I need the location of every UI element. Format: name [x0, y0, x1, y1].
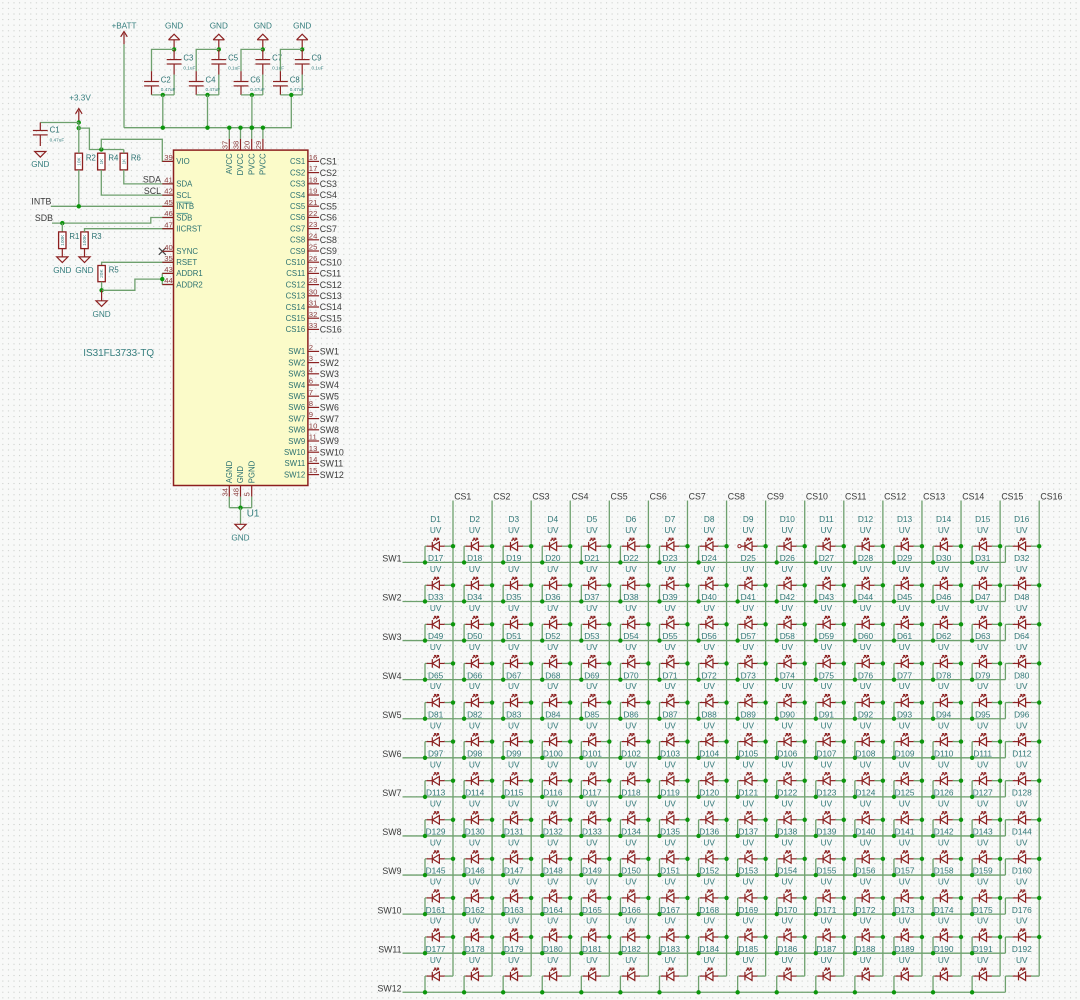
LED D10 UV	[775, 514, 807, 565]
svg-text:UV: UV	[1016, 916, 1028, 926]
svg-text:7: 7	[309, 388, 313, 397]
LED D143 UV	[970, 827, 1002, 878]
svg-text:CS10: CS10	[286, 258, 306, 267]
svg-text:VIO: VIO	[176, 157, 189, 166]
svg-text:UV: UV	[508, 720, 520, 730]
svg-text:42: 42	[164, 187, 173, 196]
svg-text:CS12: CS12	[320, 280, 342, 290]
LED D48 UV	[1005, 592, 1041, 640]
pin 40 SYNC	[162, 243, 198, 256]
pin 48 GND	[232, 466, 246, 508]
svg-text:UV: UV	[899, 720, 911, 730]
svg-text:37: 37	[220, 141, 229, 150]
pin CS6	[290, 209, 337, 223]
LED D24 UV	[696, 553, 728, 604]
LED D129 UV	[423, 827, 455, 878]
svg-text:D134: D134	[621, 827, 641, 837]
svg-text:D46: D46	[936, 592, 952, 602]
LED D84 UV	[540, 709, 572, 760]
svg-text:28: 28	[309, 276, 318, 285]
junction pair 2 tie	[205, 93, 209, 97]
svg-text:UV: UV	[860, 798, 872, 808]
svg-text:UV: UV	[782, 642, 794, 652]
junction ADDR tie	[160, 277, 164, 281]
svg-text:D183: D183	[660, 944, 680, 954]
LED D15 UV	[970, 514, 1002, 565]
svg-text:UV: UV	[625, 681, 637, 691]
svg-text:D127: D127	[973, 788, 993, 798]
svg-text:D137: D137	[738, 827, 758, 837]
svg-text:CS13: CS13	[923, 492, 945, 502]
pin SW1	[288, 343, 339, 357]
svg-text:UV: UV	[430, 877, 442, 887]
svg-text:CS9: CS9	[767, 492, 784, 502]
LED D141 UV	[892, 827, 924, 878]
svg-text:CS2: CS2	[493, 492, 510, 502]
svg-text:100K: 100K	[82, 234, 88, 246]
LED D50 UV	[462, 631, 494, 682]
svg-text:CS14: CS14	[962, 492, 984, 502]
svg-text:UV: UV	[860, 564, 872, 574]
svg-text:D68: D68	[545, 670, 561, 680]
svg-text:UV: UV	[782, 877, 794, 887]
wire R2 top	[78, 128, 80, 153]
svg-text:D67: D67	[506, 670, 522, 680]
svg-text:25: 25	[309, 243, 318, 252]
svg-text:IS31FL3733-TQ: IS31FL3733-TQ	[83, 348, 154, 359]
LED D136 UV	[696, 827, 728, 878]
svg-text:UV: UV	[469, 525, 481, 535]
LED D38 UV	[618, 592, 650, 643]
LED D111 UV	[970, 748, 1002, 799]
svg-text:UV: UV	[547, 838, 559, 848]
svg-text:SW2: SW2	[382, 593, 401, 603]
svg-text:48: 48	[232, 488, 241, 497]
svg-text:D88: D88	[702, 709, 718, 719]
svg-text:D59: D59	[819, 631, 835, 641]
junction DVCC on bus	[238, 126, 242, 130]
junction pair 1 tie	[161, 93, 165, 97]
svg-text:R5: R5	[109, 266, 120, 275]
svg-text:D178: D178	[465, 944, 485, 954]
svg-text:D150: D150	[621, 866, 641, 876]
LED D114 UV	[462, 788, 494, 839]
svg-text:UV: UV	[625, 955, 637, 965]
LED D41 UV	[735, 592, 767, 643]
svg-text:D11: D11	[819, 514, 834, 524]
svg-text:GND: GND	[254, 21, 272, 30]
LED D67 UV	[501, 670, 533, 721]
pin CS3	[290, 175, 337, 189]
svg-text:UV: UV	[821, 955, 833, 965]
LED D43 UV	[814, 592, 846, 643]
LED D101 UV	[579, 748, 611, 799]
wire CS16 column	[1038, 501, 1040, 977]
LED D105 UV	[735, 748, 767, 799]
wire SW5 row	[403, 718, 1006, 720]
svg-text:UV: UV	[430, 759, 442, 769]
svg-text:D139: D139	[816, 827, 836, 837]
svg-text:D41: D41	[741, 592, 757, 602]
svg-text:UV: UV	[860, 759, 872, 769]
svg-text:4: 4	[309, 365, 314, 374]
svg-text:SW10: SW10	[284, 448, 306, 457]
svg-text:UV: UV	[938, 916, 950, 926]
svg-text:D164: D164	[543, 905, 563, 915]
svg-text:D63: D63	[975, 631, 991, 641]
LED D179 UV	[501, 944, 531, 995]
svg-text:0.47uF: 0.47uF	[161, 87, 176, 92]
svg-text:D51: D51	[506, 631, 522, 641]
svg-text:D124: D124	[856, 788, 876, 798]
svg-text:UV: UV	[1016, 681, 1028, 691]
LED D78 UV	[931, 670, 963, 721]
svg-text:D36: D36	[545, 592, 561, 602]
wire CS14 column	[960, 501, 962, 977]
svg-text:AGND: AGND	[225, 460, 234, 483]
LED D169 UV	[735, 905, 767, 956]
junction pair 4 tie	[289, 93, 293, 97]
LED D165 UV	[579, 905, 611, 956]
svg-text:UV: UV	[742, 759, 754, 769]
LED D126 UV	[931, 788, 963, 839]
LED D159 UV	[970, 866, 1002, 917]
LED D81 UV	[423, 709, 455, 760]
pin SW10	[284, 444, 344, 458]
svg-text:SW3: SW3	[288, 370, 305, 379]
svg-text:UV: UV	[703, 720, 715, 730]
svg-text:D54: D54	[623, 631, 639, 641]
svg-text:UV: UV	[664, 564, 676, 574]
svg-text:20: 20	[243, 141, 252, 150]
svg-text:SW8: SW8	[382, 827, 401, 837]
svg-text:SW9: SW9	[382, 866, 401, 876]
svg-text:UV: UV	[547, 916, 559, 926]
svg-text:D191: D191	[973, 944, 993, 954]
svg-text:UV: UV	[625, 759, 637, 769]
svg-text:9: 9	[309, 410, 313, 419]
svg-text:PVCC: PVCC	[259, 153, 268, 175]
svg-text:UV: UV	[703, 642, 715, 652]
LED D62 UV	[931, 631, 963, 682]
svg-text:UV: UV	[547, 681, 559, 691]
LED D108 UV	[853, 748, 885, 799]
wire R6 top	[123, 150, 125, 154]
pin 38 DVCC	[232, 128, 246, 176]
svg-text:UV: UV	[703, 798, 715, 808]
svg-text:UV: UV	[782, 916, 794, 926]
svg-text:D28: D28	[858, 553, 874, 563]
LED D168 UV	[696, 905, 728, 956]
svg-text:UV: UV	[508, 564, 520, 574]
junction pair 1 on bus	[161, 126, 165, 130]
svg-text:D89: D89	[741, 709, 757, 719]
svg-text:UV: UV	[938, 681, 950, 691]
svg-text:UV: UV	[899, 564, 911, 574]
LED D23 UV	[657, 553, 689, 604]
svg-text:0.47uF: 0.47uF	[290, 87, 305, 92]
svg-text:UV: UV	[547, 955, 559, 965]
svg-text:UV: UV	[703, 877, 715, 887]
svg-text:D8: D8	[704, 514, 715, 524]
LED D46 UV	[931, 592, 963, 643]
LED D18 UV	[462, 553, 494, 604]
capacitor C6 0.47uF	[234, 71, 265, 95]
wire SW9 row	[403, 874, 1006, 876]
svg-text:CS4: CS4	[320, 190, 337, 200]
LED D146 UV	[462, 866, 494, 917]
LED D51 UV	[501, 631, 533, 682]
pin SW3	[288, 365, 339, 379]
LED D86 UV	[618, 709, 650, 760]
LED D76 UV	[853, 670, 885, 721]
svg-text:D20: D20	[545, 553, 561, 563]
svg-text:UV: UV	[938, 798, 950, 808]
svg-text:D87: D87	[662, 709, 678, 719]
svg-text:D181: D181	[582, 944, 602, 954]
svg-text:UV: UV	[742, 564, 754, 574]
LED D153 UV	[735, 866, 767, 917]
resistor R3 100K	[81, 232, 102, 257]
svg-text:D188: D188	[856, 944, 876, 954]
LED D122 UV	[775, 788, 807, 839]
junction +3.3V node B	[77, 126, 81, 130]
svg-text:UV: UV	[899, 916, 911, 926]
svg-text:44: 44	[164, 276, 173, 285]
LED D27 UV	[814, 553, 846, 604]
svg-text:UV: UV	[821, 916, 833, 926]
svg-text:27: 27	[309, 265, 318, 274]
pin SW2	[288, 354, 339, 368]
svg-text:D186: D186	[777, 944, 797, 954]
svg-text:CS15: CS15	[286, 314, 306, 323]
svg-text:D81: D81	[428, 709, 444, 719]
svg-text:D30: D30	[936, 553, 952, 563]
svg-text:D158: D158	[934, 866, 954, 876]
wire SW10 row	[403, 913, 1006, 915]
svg-text:D2: D2	[469, 514, 480, 524]
svg-text:UV: UV	[625, 798, 637, 808]
svg-text:C2: C2	[161, 76, 171, 85]
junction at C7 top	[261, 47, 265, 51]
svg-text:D170: D170	[777, 905, 797, 915]
svg-text:D190: D190	[934, 944, 954, 954]
svg-text:UV: UV	[625, 916, 637, 926]
svg-text:SW8: SW8	[320, 425, 339, 435]
svg-text:38: 38	[232, 141, 241, 150]
svg-text:UV: UV	[430, 642, 442, 652]
LED D121 UV	[735, 788, 767, 839]
svg-text:C1: C1	[50, 126, 60, 135]
LED D97 UV	[423, 748, 455, 799]
svg-text:UV: UV	[1016, 603, 1028, 613]
svg-text:UV: UV	[1016, 564, 1028, 574]
svg-text:UV: UV	[899, 798, 911, 808]
svg-text:CS6: CS6	[320, 213, 337, 223]
svg-text:CS9: CS9	[320, 246, 337, 256]
svg-text:D105: D105	[738, 748, 758, 758]
pin CS15	[286, 310, 342, 324]
svg-text:D166: D166	[621, 905, 641, 915]
svg-text:UV: UV	[508, 642, 520, 652]
svg-text:D155: D155	[816, 866, 836, 876]
svg-text:UV: UV	[782, 955, 794, 965]
svg-text:UV: UV	[860, 720, 872, 730]
svg-text:D35: D35	[506, 592, 522, 602]
LED D69 UV	[579, 670, 611, 721]
svg-text:UV: UV	[703, 955, 715, 965]
wire CS1 column	[452, 501, 454, 977]
svg-text:D69: D69	[584, 670, 600, 680]
svg-text:D57: D57	[741, 631, 757, 641]
junction pair 3 on bus	[250, 126, 254, 130]
svg-text:D77: D77	[897, 670, 913, 680]
LED D60 UV	[853, 631, 885, 682]
LED D17 UV	[423, 553, 455, 604]
svg-text:PGND: PGND	[247, 460, 256, 483]
LED D176 UV	[1005, 905, 1041, 953]
svg-text:D129: D129	[426, 827, 446, 837]
svg-text:D56: D56	[702, 631, 718, 641]
svg-text:SW3: SW3	[382, 632, 401, 642]
svg-text:UV: UV	[586, 681, 598, 691]
svg-text:UV: UV	[469, 955, 481, 965]
svg-text:D160: D160	[1012, 866, 1032, 876]
LED D54 UV	[618, 631, 650, 682]
capacitor C8 0.47uF	[273, 71, 304, 95]
LED D93 UV	[892, 709, 924, 760]
LED D45 UV	[892, 592, 924, 643]
LED D139 UV	[814, 827, 846, 878]
svg-text:D119: D119	[660, 788, 680, 798]
svg-text:UV: UV	[977, 798, 989, 808]
LED D66 UV	[462, 670, 494, 721]
LED D157 UV	[892, 866, 924, 917]
LED D9 UV	[738, 514, 768, 551]
svg-text:D118: D118	[621, 788, 641, 798]
svg-text:39: 39	[164, 153, 173, 162]
LED D135 UV	[657, 827, 689, 878]
LED D34 UV	[462, 592, 494, 643]
LED D74 UV	[775, 670, 807, 721]
svg-text:UV: UV	[899, 877, 911, 887]
svg-text:D26: D26	[780, 553, 796, 563]
LED D156 UV	[853, 866, 885, 917]
svg-text:UV: UV	[430, 681, 442, 691]
svg-text:UV: UV	[703, 525, 715, 535]
svg-text:10K: 10K	[76, 156, 82, 165]
wire R6 bottom to SDA	[124, 170, 174, 184]
svg-text:R4: R4	[108, 153, 119, 162]
svg-text:CS4: CS4	[290, 191, 306, 200]
svg-text:C6: C6	[250, 76, 260, 85]
svg-text:INTB: INTB	[176, 202, 194, 211]
LED D42 UV	[775, 592, 807, 643]
LED D22 UV	[618, 553, 650, 604]
svg-text:UV: UV	[586, 877, 598, 887]
svg-text:SW2: SW2	[288, 358, 305, 367]
svg-text:UV: UV	[782, 838, 794, 848]
LED D132 UV	[540, 827, 572, 878]
svg-text:UV: UV	[860, 955, 872, 965]
svg-text:D12: D12	[858, 514, 874, 524]
wire CS2 column	[491, 501, 493, 977]
svg-text:CS10: CS10	[320, 257, 342, 267]
svg-text:D117: D117	[582, 788, 602, 798]
svg-text:UV: UV	[469, 916, 481, 926]
svg-text:D156: D156	[856, 866, 876, 876]
LED D150 UV	[618, 866, 650, 917]
pin SW4	[288, 377, 339, 391]
svg-text:D136: D136	[699, 827, 719, 837]
svg-text:UV: UV	[430, 603, 442, 613]
svg-text:UV: UV	[703, 838, 715, 848]
svg-text:CS6: CS6	[650, 492, 667, 502]
svg-text:UV: UV	[703, 564, 715, 574]
svg-text:D99: D99	[506, 748, 522, 758]
svg-text:D180: D180	[543, 944, 563, 954]
svg-text:UV: UV	[625, 877, 637, 887]
LED D11 UV	[814, 514, 846, 565]
wire R3 to IICRST	[85, 229, 174, 232]
ground GND (R1)	[53, 257, 71, 275]
svg-text:CS8: CS8	[290, 236, 305, 245]
svg-text:UV: UV	[938, 642, 950, 652]
svg-text:43: 43	[164, 265, 173, 274]
junction R4 top	[99, 147, 103, 151]
svg-text:D142: D142	[934, 827, 954, 837]
svg-text:GND: GND	[31, 160, 49, 169]
svg-text:5: 5	[243, 492, 252, 496]
svg-text:19: 19	[309, 187, 318, 196]
svg-text:UV: UV	[977, 564, 989, 574]
svg-text:UV: UV	[586, 838, 598, 848]
svg-text:UV: UV	[899, 955, 911, 965]
svg-text:UV: UV	[586, 525, 598, 535]
svg-text:0.1uF: 0.1uF	[228, 65, 240, 70]
svg-text:SW6: SW6	[288, 403, 305, 412]
svg-text:D80: D80	[1014, 670, 1030, 680]
svg-text:D141: D141	[895, 827, 915, 837]
svg-text:UV: UV	[742, 916, 754, 926]
svg-text:UV: UV	[742, 720, 754, 730]
LED D161 UV	[423, 905, 455, 956]
svg-text:UV: UV	[508, 525, 520, 535]
svg-text:UV: UV	[703, 916, 715, 926]
svg-text:UV: UV	[977, 642, 989, 652]
wire +BATT to bus	[123, 44, 125, 127]
LED D13 UV	[892, 514, 924, 565]
LED D128 UV	[1005, 788, 1041, 836]
wire ADDR1/ADDR2 tie	[161, 273, 163, 284]
svg-text:D33: D33	[428, 592, 444, 602]
svg-text:CS5: CS5	[611, 492, 628, 502]
svg-text:41: 41	[164, 176, 173, 185]
svg-text:SW8: SW8	[288, 426, 305, 435]
wire bottom gnd tie	[229, 507, 251, 509]
wire to VIO pin 39	[101, 139, 173, 161]
svg-text:D120: D120	[699, 788, 719, 798]
svg-text:15: 15	[309, 466, 318, 475]
svg-text:UV: UV	[508, 759, 520, 769]
svg-text:SW7: SW7	[382, 788, 401, 798]
pin 43 ADDR1	[162, 265, 202, 278]
svg-text:UV: UV	[508, 955, 520, 965]
svg-text:D168: D168	[699, 905, 719, 915]
svg-text:D18: D18	[467, 553, 483, 563]
svg-text:D83: D83	[506, 709, 522, 719]
svg-text:D85: D85	[584, 709, 600, 719]
